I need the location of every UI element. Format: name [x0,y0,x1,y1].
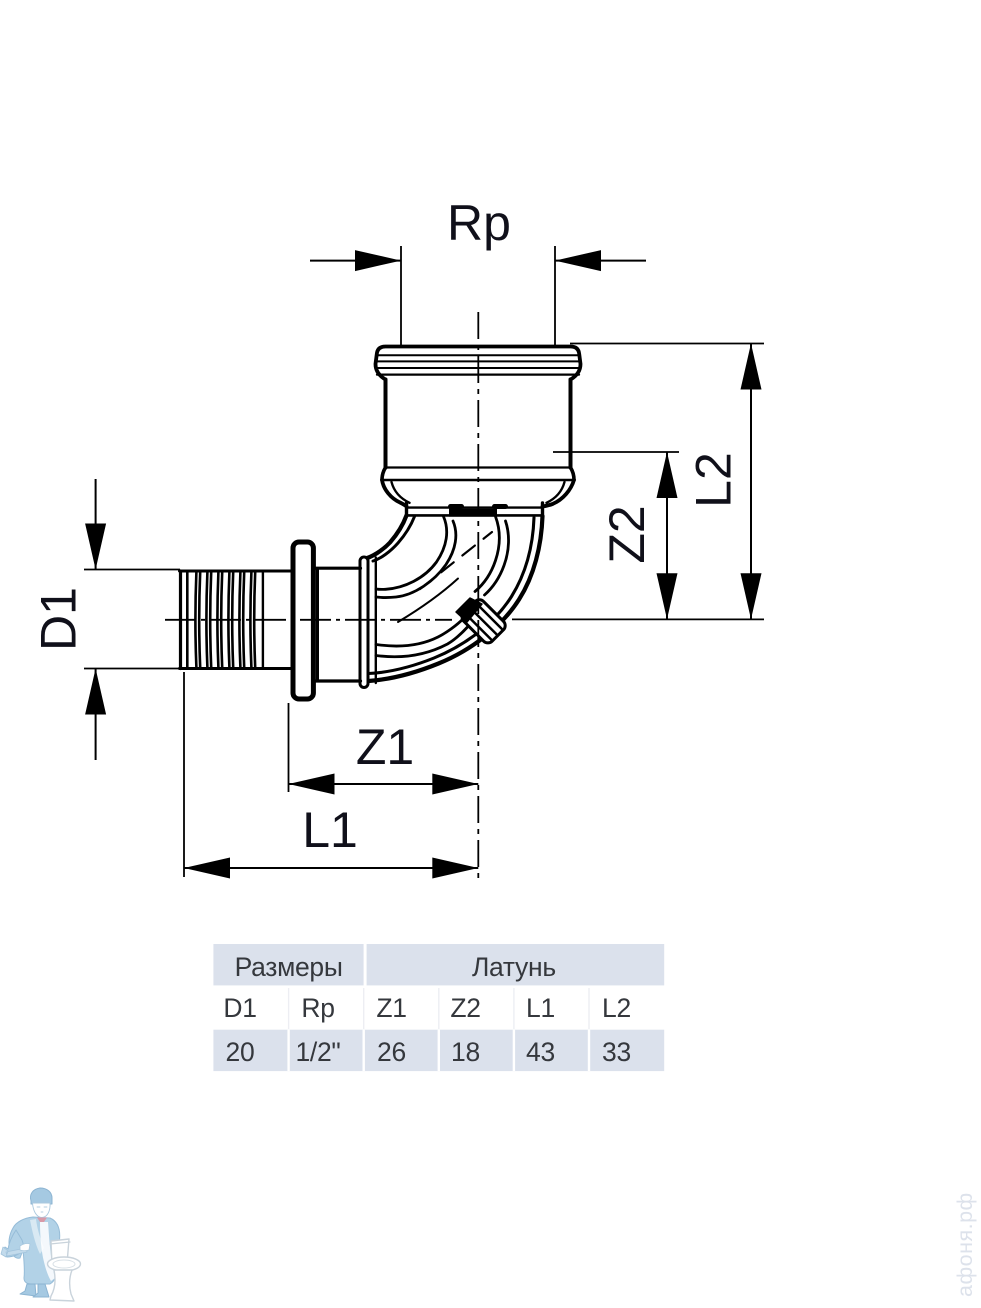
svg-text:L2: L2 [686,452,742,508]
socket rim line 4 [377,374,579,376]
hidden diagonal dashed line [420,532,492,589]
D1 dimension line top [95,479,97,570]
lug junction ink [456,598,482,622]
label row separator 4 [513,988,515,1029]
toilet bowl inner rim [53,1260,75,1268]
value row separator 5 [588,1030,590,1071]
wrench [1,1247,27,1257]
horizontal dash-dot centerline [165,619,452,621]
value row separator 1 [287,1030,289,1071]
socket rim line 2 [376,360,581,362]
svg-text:1/2": 1/2" [295,1037,340,1067]
svg-text:афоня.рф: афоня.рф [953,1192,977,1297]
thread rib 3 [217,572,222,668]
vertical dashed centerline [477,312,479,879]
label row separator 1 [288,988,290,1029]
D1 bottom extension line [84,668,180,670]
thread rib 6 [250,572,255,668]
Z1 left extension line [288,703,290,792]
socket flare left [382,468,386,481]
label row separator 3 [438,988,440,1029]
bottom tube wall inner [376,627,468,657]
Z1 dimension line [289,783,479,785]
neck left side [405,503,408,515]
plumber face [33,1203,51,1218]
toilet pedestal [50,1270,74,1301]
Rp left arrow [355,250,401,271]
socket rim outline [376,347,581,380]
value row separator 3 [438,1030,440,1071]
thread rib 2 [206,572,211,668]
socket rim line 3 [376,367,581,369]
svg-text:L1: L1 [526,993,555,1023]
svg-text:18: 18 [451,1037,480,1067]
Z2 dimension line [666,452,668,619]
socket body bottom edge [386,466,570,468]
thread left end [179,571,182,669]
toilet tank lid line [50,1242,70,1244]
svg-text:Rp: Rp [301,993,334,1023]
D1 top arrow [85,524,106,570]
socket body left side [384,380,388,468]
svg-text:D1: D1 [31,587,87,651]
Z2 bottom arrow [657,573,678,619]
left tube wall inner [376,521,456,598]
L2 dimension line [750,344,752,620]
horizontal centerline solid extension [512,618,764,620]
plumber bowtie [37,1218,47,1223]
thread rib 1 [195,572,200,668]
label row separator 2 [363,988,365,1029]
socket body right side [569,380,573,468]
value row separator 2 [363,1030,365,1071]
L1 left extension line [183,672,185,877]
elbow outer parallel curve [369,518,535,674]
label row separator 5 [588,988,590,1029]
collar [293,542,313,699]
svg-text:26: 26 [377,1037,406,1067]
bell right inner line [547,482,565,503]
elbow inner upper-left curve [364,515,407,559]
L1 right arrow [432,858,478,879]
svg-text:L1: L1 [302,802,358,858]
neck lower line [407,514,543,517]
svg-text:Z2: Z2 [450,993,480,1023]
Rp right arrow [555,250,601,271]
male end cap ring [360,557,368,688]
post-collar cylinder bottom [316,679,361,682]
svg-text:D1: D1 [223,993,256,1023]
L2 top arrow [741,344,762,390]
table header band right (Латунь) [367,944,665,985]
Rp dimension line left [310,260,401,262]
table value row band [213,1030,664,1071]
bottom tube wall outer [376,619,464,647]
svg-text:20: 20 [226,1037,255,1067]
socket rim line 1 [376,354,580,356]
left tube wall outer [376,517,447,590]
plumber cap [30,1188,52,1204]
svg-text:Rp: Rp [447,195,511,251]
thread bottom edge [180,667,291,670]
L2 top extension line [570,343,764,345]
neck nub right [495,504,506,509]
svg-text:43: 43 [526,1037,555,1067]
svg-text:Размеры: Размеры [235,952,343,982]
plumber right boot [33,1284,49,1297]
face features [37,1207,47,1212]
plumber left arm [2,1230,25,1257]
svg-text:Латунь: Латунь [472,952,556,982]
D1 bottom arrow [85,669,106,715]
jacket front opening [40,1222,55,1281]
elbow outer curve [369,516,543,681]
L1 dimension line [184,867,478,869]
toilet tank [51,1239,69,1265]
bell left outer [382,480,407,507]
jacket lapel highlight [30,1219,44,1254]
plumber legs [20,1284,36,1296]
post-collar cylinder top [316,567,361,570]
lug boss [460,597,508,645]
right tube wall outer [475,517,499,592]
Z2 top extension line [553,451,679,453]
thread rib 5 [239,572,244,668]
bell right outer [543,480,575,507]
neck right side [541,503,544,515]
svg-text:33: 33 [602,1037,631,1067]
svg-text:L2: L2 [602,993,631,1023]
Z1 left arrow [289,774,335,795]
neck nub left [451,504,462,509]
plumber hand [20,1244,30,1251]
bell left inner line [392,482,410,503]
thread rib 4 [228,572,233,668]
value row separator 4 [513,1030,515,1071]
L1 left arrow [184,858,230,879]
D1 top extension line [84,569,180,571]
Z2 top arrow [657,452,678,498]
neck upper line [407,506,543,508]
thread ribs right boundary [262,572,264,668]
svg-text:Z2: Z2 [599,505,655,563]
plumber torso/jacket [9,1217,60,1284]
elbow inner parallel curve [373,517,415,562]
second cap ring line [375,558,377,684]
right tube wall inner [485,521,509,595]
svg-text:Z1: Z1 [356,719,414,775]
tube reflection arc [398,579,458,623]
post-collar cylinder left edge [316,569,319,680]
D1 dimension line bottom [95,669,97,761]
thread left second line [186,572,189,668]
Rp left extension line [400,246,402,345]
watermark plumber figure [1,1188,81,1301]
svg-text:Z1: Z1 [376,993,406,1023]
socket flare bottom edge [382,479,574,482]
Rp dimension line right [555,260,646,262]
thread top edge [180,570,291,573]
Z1 right arrow [432,774,478,795]
Rp right extension line [554,246,556,345]
toilet bowl rim [48,1257,81,1271]
bore opening dark bar [449,509,497,517]
table header band left (Размеры) [213,944,363,985]
socket flare right [571,468,575,481]
L2 bottom arrow [741,573,762,619]
